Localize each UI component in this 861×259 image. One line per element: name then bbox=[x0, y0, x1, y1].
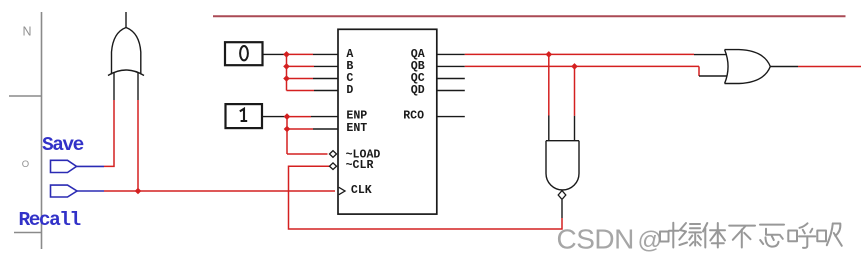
svg-text:O: O bbox=[22, 159, 29, 170]
svg-text:CLK: CLK bbox=[351, 184, 372, 197]
svg-text:QD: QD bbox=[411, 84, 425, 97]
svg-text:RCO: RCO bbox=[403, 109, 424, 122]
svg-text:ENT: ENT bbox=[346, 122, 367, 135]
svg-text:B: B bbox=[346, 60, 353, 73]
svg-text:CSDN: CSDN bbox=[557, 224, 634, 255]
svg-text:ENP: ENP bbox=[346, 109, 367, 122]
svg-text:~CLR: ~CLR bbox=[346, 159, 374, 172]
svg-text:Save: Save bbox=[42, 134, 84, 156]
svg-text:@: @ bbox=[638, 227, 663, 254]
svg-text:QB: QB bbox=[411, 60, 425, 73]
svg-text:D: D bbox=[346, 84, 353, 97]
svg-text:Recall: Recall bbox=[19, 209, 81, 231]
svg-text:N: N bbox=[23, 25, 32, 39]
